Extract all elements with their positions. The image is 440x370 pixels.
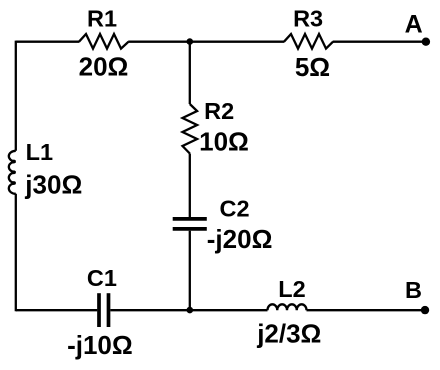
svg-text:j30Ω: j30Ω <box>24 170 82 200</box>
inductor L1 <box>9 151 16 194</box>
svg-text:j2/3Ω: j2/3Ω <box>256 319 321 349</box>
svg-text:5Ω: 5Ω <box>295 52 330 82</box>
resistor R1 <box>79 34 129 49</box>
svg-text:-j20Ω: -j20Ω <box>207 224 273 254</box>
wire bottom junction to L2 <box>190 309 268 311</box>
svg-text:R3: R3 <box>293 6 323 32</box>
wire R2 to C2 <box>189 154 191 218</box>
terminal dot node B <box>421 306 429 314</box>
wire L2 to terminal B <box>307 309 426 311</box>
svg-text:L1: L1 <box>26 139 53 165</box>
svg-text:L2: L2 <box>278 276 305 302</box>
wire R3 to terminal A <box>333 41 426 43</box>
wire middle vertical (top junction to R2) <box>189 42 191 104</box>
svg-text:B: B <box>405 277 422 303</box>
svg-text:20Ω: 20Ω <box>79 51 129 81</box>
resistor R3 <box>284 34 333 49</box>
wire C1 to bottom junction <box>110 309 189 311</box>
svg-text:R2: R2 <box>204 98 234 124</box>
wire top junction to R3 <box>190 41 284 43</box>
wire left vertical bottom (L1 to corner) <box>15 194 17 311</box>
junction dot bottom node <box>187 307 194 314</box>
svg-text:A: A <box>405 10 423 38</box>
svg-text:-j10Ω: -j10Ω <box>67 330 133 360</box>
capacitor C2 <box>173 219 207 229</box>
wire left vertical top (corner to L1) <box>15 41 17 151</box>
junction dot top node <box>187 38 194 45</box>
resistor R2 <box>183 104 198 154</box>
svg-text:10Ω: 10Ω <box>199 126 249 156</box>
wire R1 to top junction <box>128 41 190 43</box>
wire bottom-left (corner to C1) <box>16 309 98 311</box>
capacitor C1 <box>99 293 109 327</box>
wire C2 to bottom junction <box>189 231 191 311</box>
wire top-left (corner to R1) <box>16 41 80 43</box>
svg-text:C2: C2 <box>219 196 249 222</box>
terminal dot node A <box>422 38 430 46</box>
svg-text:R1: R1 <box>87 6 117 32</box>
svg-text:C1: C1 <box>87 265 117 291</box>
inductor L2 <box>268 304 307 310</box>
